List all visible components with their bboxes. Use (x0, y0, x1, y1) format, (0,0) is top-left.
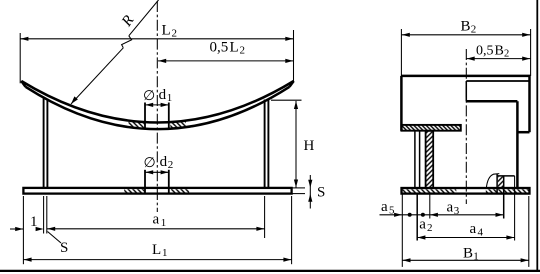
svg-text:a: a (381, 199, 388, 215)
dimension S right (292, 187, 305, 189)
svg-text:S: S (60, 240, 68, 256)
base plate hatch left part (402, 189, 456, 192)
centerline left view (156, 1, 158, 212)
base plate right view (402, 188, 530, 194)
saddle hole right wall (168, 103, 170, 129)
base plate left view (23, 188, 291, 194)
dimension H (271, 99, 302, 101)
hook bottom (517, 131, 529, 134)
svg-text:L: L (162, 23, 171, 39)
saddle bottom arc (26, 87, 290, 129)
svg-text:H: H (304, 138, 315, 154)
dimension L2 (19, 33, 21, 83)
boss top edge (497, 175, 514, 177)
svg-text:1: 1 (473, 251, 479, 263)
svg-text:4: 4 (478, 227, 484, 239)
svg-text:2: 2 (471, 24, 477, 36)
svg-text:1: 1 (161, 217, 167, 229)
base plate hatch right patch (171, 189, 189, 192)
svg-text:L: L (230, 40, 239, 56)
saddle top arc (21, 81, 293, 123)
svg-text:R: R (118, 13, 137, 31)
svg-text:B: B (461, 19, 471, 35)
svg-text:2: 2 (240, 45, 246, 57)
svg-text:2: 2 (172, 28, 178, 40)
dimension 0,5B2 (467, 58, 531, 60)
base plate hole right wall (168, 170, 170, 194)
svg-text:0,5: 0,5 (476, 44, 494, 59)
dimension a1 (264, 196, 266, 238)
dimension B1 (402, 259, 529, 261)
extension lines below plate (401, 194, 403, 267)
svg-text:1: 1 (167, 92, 173, 104)
svg-text:a: a (419, 217, 426, 233)
svg-text:a: a (470, 221, 477, 237)
svg-text:2: 2 (504, 49, 509, 60)
breakout arc (486, 174, 499, 189)
boss hatch (498, 177, 503, 188)
svg-text:B: B (495, 44, 504, 59)
svg-text:5: 5 (389, 205, 395, 217)
dimension 0,5L2 (158, 60, 294, 62)
dimension L1 (291, 196, 293, 264)
dimension 1 (plate overhang) (22, 196, 24, 264)
svg-text:d: d (159, 87, 167, 103)
left leg (43, 99, 45, 189)
svg-text:2: 2 (168, 159, 174, 171)
saddle right end face (290, 81, 294, 87)
top block outline (401, 75, 530, 78)
svg-text:3: 3 (454, 205, 460, 217)
side view leg faces (414, 131, 416, 188)
chain dimension line a5 a2 a3 (380, 214, 504, 216)
inner vertical to plate (516, 101, 519, 188)
centerline right view (465, 49, 467, 204)
upper flange strip (401, 125, 460, 131)
svg-text:2: 2 (427, 222, 433, 234)
hole left wall (496, 174, 498, 194)
radius leader R (129, 0, 159, 36)
svg-text:S: S (317, 185, 325, 201)
section step edge (465, 81, 467, 101)
svg-text:∅: ∅ (143, 89, 155, 104)
svg-text:B: B (463, 246, 473, 262)
drawing frame bottom edge (0, 270, 540, 272)
dimension a4 (417, 237, 514, 239)
svg-text:d: d (160, 154, 168, 170)
saddle left end face (21, 81, 25, 87)
svg-text:1: 1 (30, 214, 38, 230)
svg-text:0,5: 0,5 (210, 40, 229, 56)
base plate hatch right part (486, 189, 529, 192)
dimension B2 (400, 29, 402, 76)
svg-text:L: L (152, 242, 161, 258)
svg-text:1: 1 (162, 247, 168, 259)
base plate hatch left patch (124, 189, 144, 192)
saddle hatch left patch (129, 121, 145, 129)
saddle hole left wall (144, 103, 146, 129)
sectioned rib bar (426, 131, 434, 188)
base plate hole left wall (144, 170, 146, 194)
right leg (264, 100, 266, 189)
svg-text:a: a (153, 212, 160, 228)
svg-text:∅: ∅ (144, 156, 156, 171)
saddle plate bottom edge right half (466, 80, 529, 82)
drawing frame right edge (536, 0, 538, 271)
leader S left (48, 232, 62, 244)
saddle hatch right patch (170, 121, 186, 129)
svg-text:a: a (447, 200, 454, 216)
hole right wall (503, 176, 505, 219)
